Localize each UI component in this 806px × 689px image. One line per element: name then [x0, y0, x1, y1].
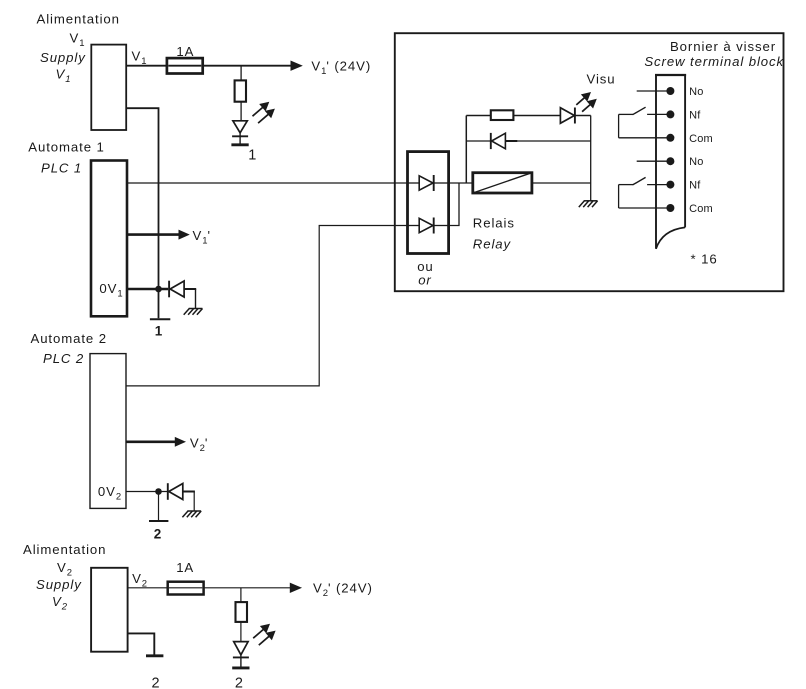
ground (PLC2 clamp)	[187, 510, 201, 512]
svg-text:2: 2	[152, 676, 161, 689]
arrow terminal V1p (24V)	[291, 61, 302, 70]
power supply block PS1 (Alimentation V1)	[91, 45, 126, 130]
wire top branch to resistor R3	[466, 115, 491, 117]
svg-text:No: No	[689, 86, 703, 98]
svg-text:1A: 1A	[176, 44, 194, 59]
PLC 2 labels	[31, 331, 107, 366]
svg-text:Nf: Nf	[689, 180, 701, 192]
terminal dot Com #3	[666, 134, 674, 142]
wire fuse F1 to V1p arrow	[203, 65, 292, 67]
svg-text:Bornier à visser: Bornier à visser	[670, 39, 776, 54]
svg-text:2: 2	[154, 527, 162, 542]
OR-diode box U3	[408, 152, 449, 254]
wire D2 to ground	[195, 289, 197, 308]
switch contact S1 (Nf/Com pair 1)	[619, 107, 646, 138]
relay coil K1	[473, 173, 532, 193]
svg-text:Com: Com	[689, 133, 713, 145]
wire to terminal Com #1	[619, 137, 671, 139]
svg-text:1A: 1A	[176, 560, 194, 575]
svg-text:* 16: * 16	[691, 252, 718, 267]
wire to terminal Nf #2	[647, 184, 670, 186]
svg-text:Com: Com	[689, 203, 713, 215]
label Relais / Relay	[473, 216, 515, 252]
resistor R2	[236, 602, 248, 622]
svg-text:2: 2	[235, 676, 244, 689]
terminal bar node 1 (under LED D1)	[231, 143, 248, 146]
diode D5 (OR input 1)	[408, 175, 449, 191]
wire relay coil to right rail	[532, 182, 591, 184]
PLC block U1 (Automate 1)	[91, 161, 127, 317]
svg-text:1: 1	[248, 148, 257, 164]
wire right rail down to ground	[590, 116, 592, 201]
diode D3 (clamp to ground, PLC2)	[168, 483, 195, 500]
terminal bar node 2 (under LED D4)	[232, 666, 249, 669]
terminal dot No #4	[666, 157, 674, 165]
svg-text:Supply: Supply	[40, 50, 86, 65]
svg-text:PLC 2: PLC 2	[43, 351, 84, 366]
junction node on rail 1	[155, 286, 162, 293]
LED D1 light arrows	[253, 107, 263, 116]
wire PS1 0V tap to rail 1	[126, 108, 158, 318]
PLC 1 labels	[28, 140, 104, 176]
diode D6 (OR input 2)	[408, 218, 449, 234]
wire 0V1 to clamp diode D2	[127, 288, 168, 290]
wire 0V2 to clamp diode D3	[126, 491, 169, 493]
wire R3 to LED Visu	[513, 115, 560, 117]
wire fuse F2 to V2p arrow	[204, 587, 292, 589]
LED D1 indicator	[232, 121, 248, 145]
wire D3 to ground	[193, 492, 195, 511]
supply 1 labels	[37, 12, 120, 86]
wire relay node up to indicator branches	[465, 116, 467, 184]
wire D8 to right rail	[517, 140, 590, 142]
svg-text:Visu: Visu	[587, 72, 616, 87]
svg-text:Supply: Supply	[36, 577, 82, 592]
diode D2 (clamp to ground, PLC1)	[169, 281, 196, 298]
fuse F2 1A	[168, 582, 204, 595]
wire middle branch to diode D8	[466, 140, 491, 142]
svg-text:Automate 1: Automate 1	[28, 140, 104, 155]
wire to terminal No #1	[637, 90, 671, 92]
interface module enclosure box	[395, 33, 784, 291]
wire to terminal Com #2	[619, 207, 671, 209]
terminal bar node 2 (PS2 return)	[146, 654, 163, 657]
LED D7 light arrows	[576, 98, 584, 105]
svg-text:or: or	[418, 273, 432, 288]
wire+arrow V1p input of PLC1	[127, 230, 189, 238]
ground (PLC1 clamp)	[189, 308, 203, 310]
wire PS2 output to fuse F2	[128, 587, 168, 589]
wire OR output to relay coil	[449, 182, 473, 184]
wire D6 output up to relay node	[449, 183, 459, 226]
wire branch down to resistor R1	[240, 66, 242, 81]
LED D4 indicator	[233, 642, 249, 667]
ground (relay common)	[584, 200, 598, 202]
terminal dot No #1	[666, 87, 674, 95]
resistor R3 (Visu series)	[491, 110, 514, 120]
svg-text:No: No	[689, 156, 703, 168]
terminal dot Com #6	[666, 204, 674, 212]
wire PLC1 output to OR-diode box	[127, 182, 408, 184]
svg-text:PLC 1: PLC 1	[41, 161, 82, 176]
svg-text:Nf: Nf	[689, 109, 701, 121]
fuse F1 1A	[167, 58, 203, 73]
svg-text:1: 1	[155, 324, 163, 339]
svg-text:Screw terminal block: Screw terminal block	[644, 54, 784, 69]
wire to terminal Nf #1	[647, 113, 670, 115]
switch contact S2 (Nf/Com pair 2)	[619, 177, 646, 208]
svg-text:Automate 2: Automate 2	[31, 331, 107, 346]
junction node (PLC2 0V)	[155, 488, 162, 495]
terminal dot Nf #5	[666, 181, 674, 189]
resistor R1	[235, 80, 246, 101]
terminal bar node 1 (rail 1)	[150, 318, 170, 320]
svg-text:Relais: Relais	[473, 216, 515, 231]
wire PS2 0V tap down to bar 2	[128, 633, 155, 654]
wire PS1 output to fuse F1	[126, 65, 167, 67]
power supply block PS2 (Alimentation V2)	[91, 568, 128, 652]
terminal dot Nf #2	[666, 110, 674, 118]
svg-text:Alimentation: Alimentation	[37, 12, 120, 27]
svg-text:Relay: Relay	[473, 237, 512, 252]
diode D8 (freewheel)	[491, 133, 518, 149]
LED D7 Visu	[560, 108, 590, 124]
wire to terminal No #2	[637, 160, 671, 162]
wire branch down to resistor R2	[240, 588, 242, 602]
supply 2 labels	[23, 542, 106, 613]
terminal bar node 2 (PLC2 return)	[149, 520, 168, 522]
PLC block U2 (Automate 2)	[90, 354, 126, 509]
label ou / or	[417, 259, 433, 288]
LED D4 light arrows	[253, 629, 263, 638]
wire junction down to bar 2	[158, 492, 160, 521]
arrow terminal V2p (24V)	[290, 583, 301, 592]
wire PLC2 output to OR-diode box	[126, 226, 408, 386]
svg-text:Alimentation: Alimentation	[23, 542, 106, 557]
screw terminal block body	[655, 74, 686, 249]
wire R1 to LED1	[240, 102, 242, 121]
wire+arrow V2p input of PLC2	[126, 438, 185, 446]
wire R2 to LED2	[240, 622, 242, 642]
